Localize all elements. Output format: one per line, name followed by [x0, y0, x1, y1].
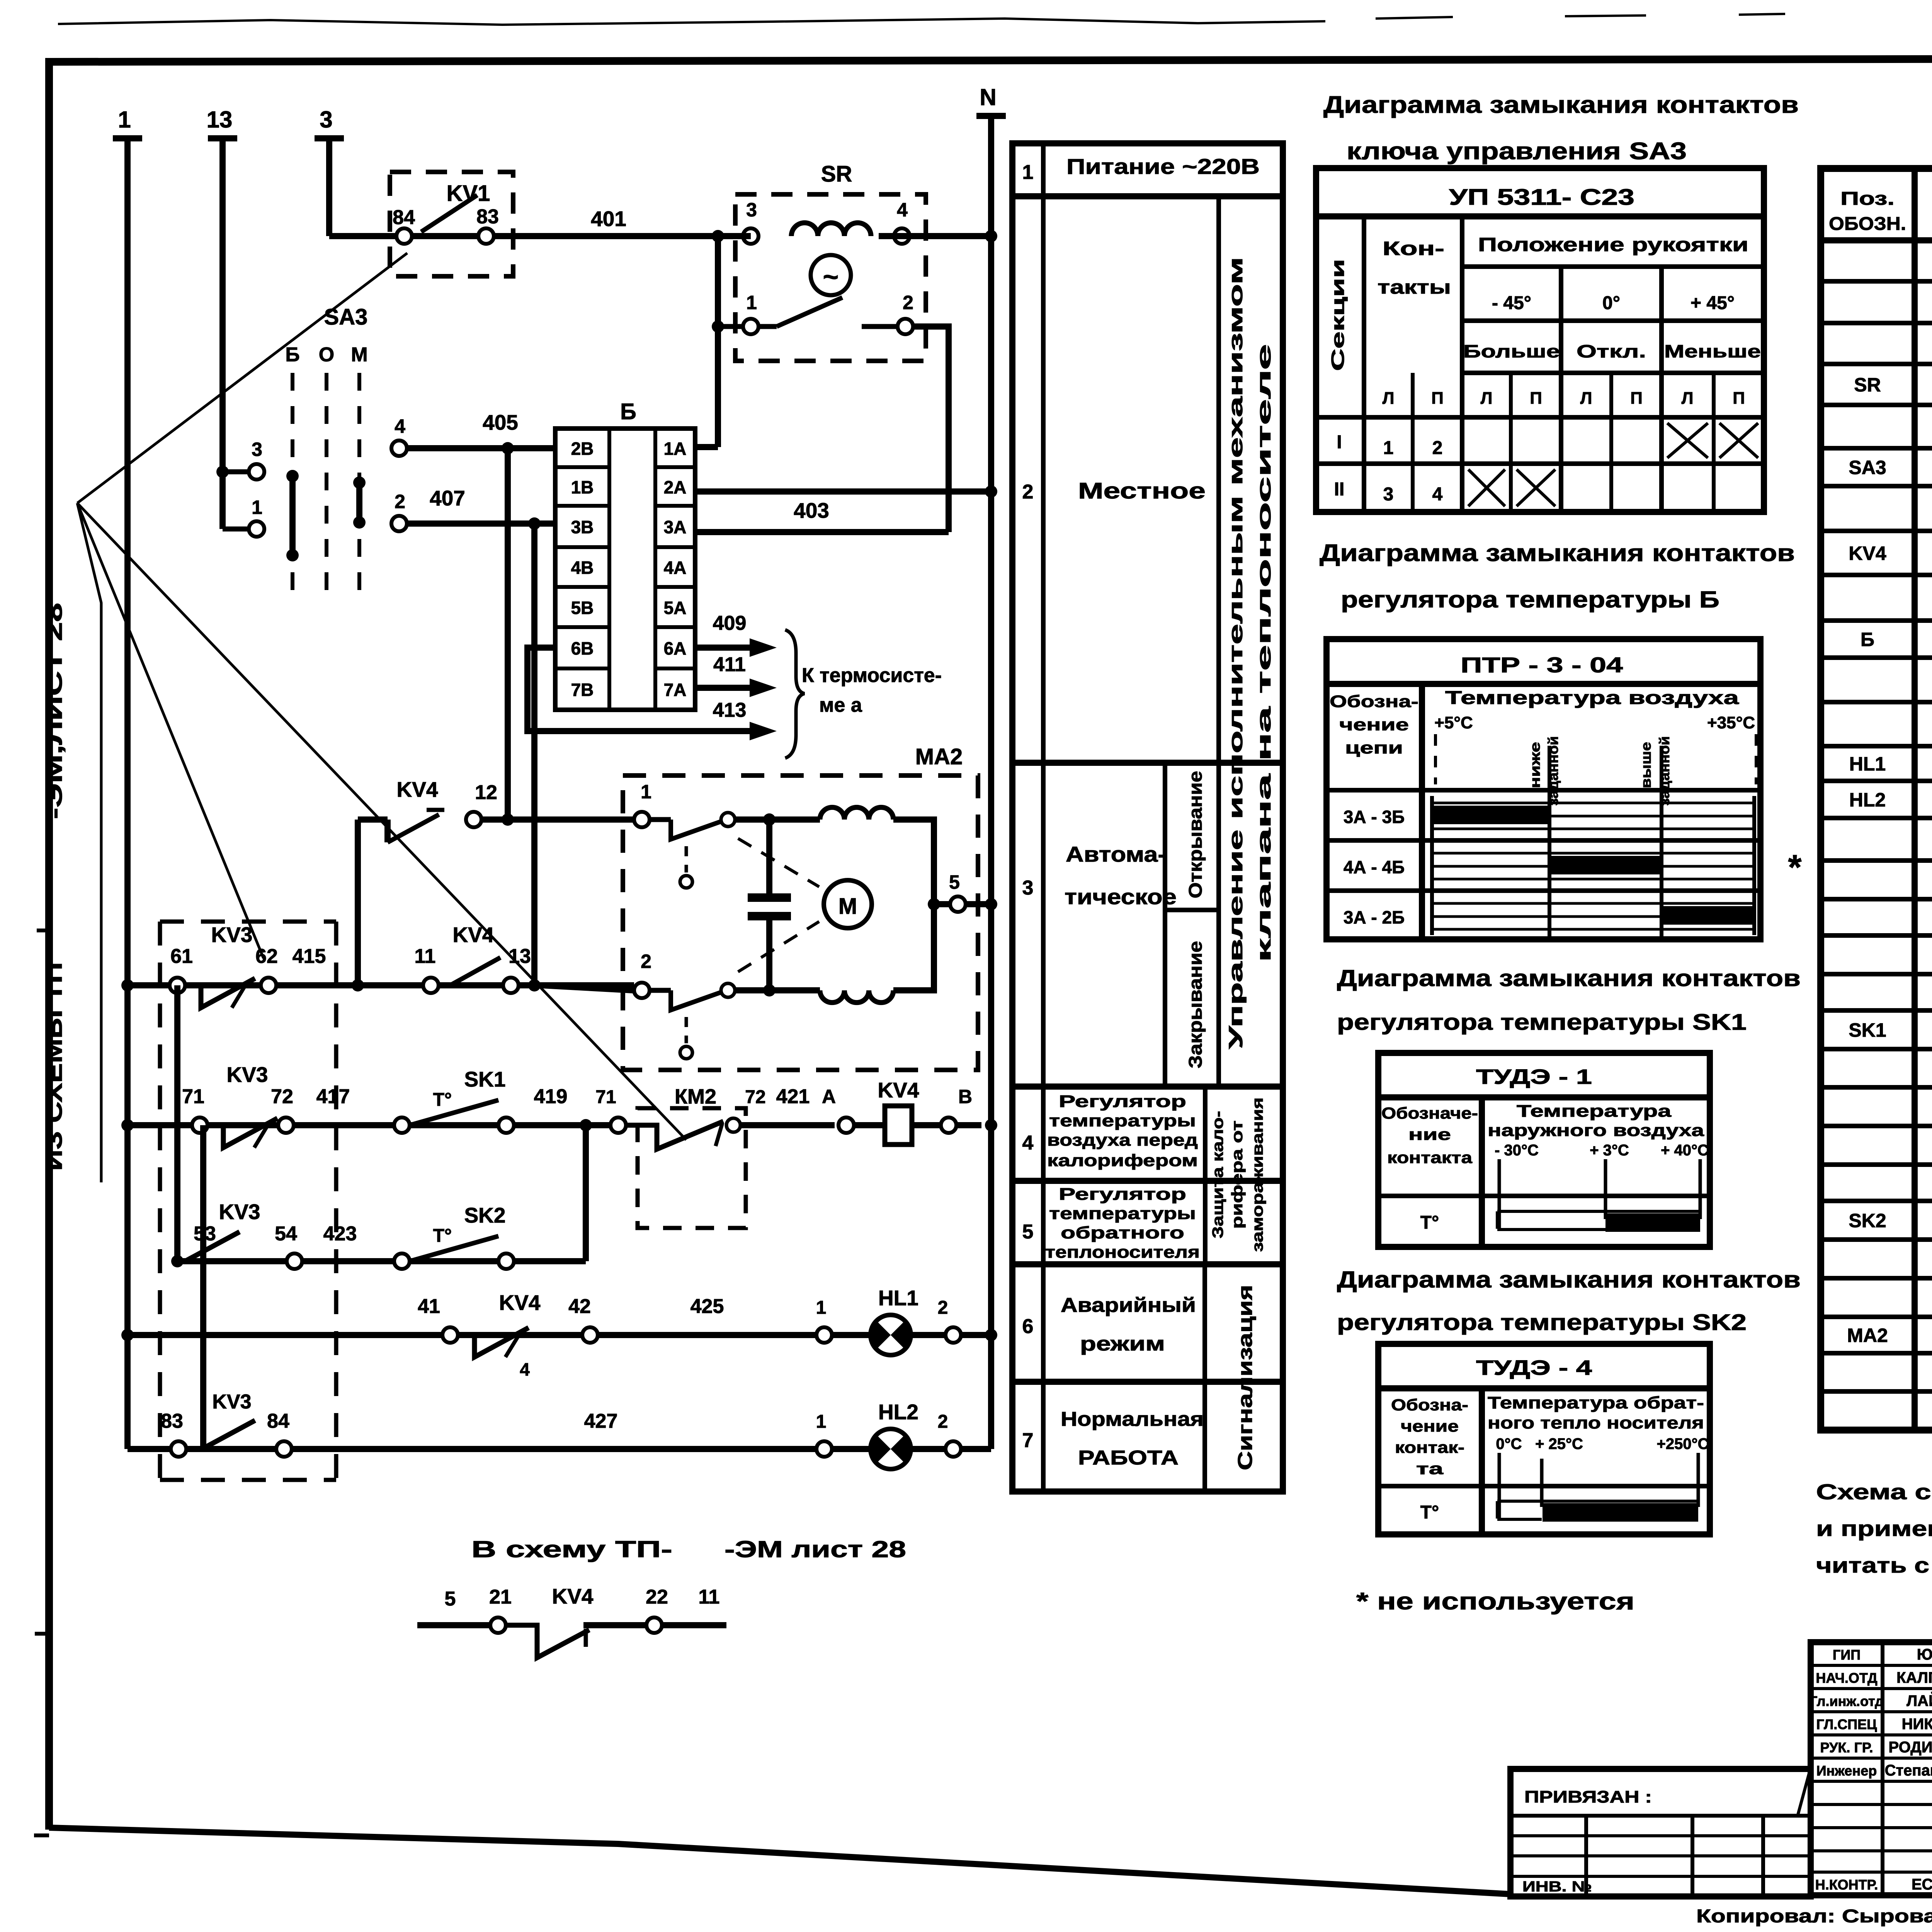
svg-text:теплоносителя: теплоносителя: [1045, 1243, 1200, 1262]
svg-text:417: 417: [316, 1085, 350, 1108]
contact designation column: [1479, 1097, 1485, 1247]
svg-text:контакта: контакта: [1387, 1148, 1473, 1167]
wire 403 from 3A: [695, 529, 949, 535]
svg-text:ме а: ме а: [819, 694, 862, 716]
svg-text:воздуха перед: воздуха перед: [1047, 1131, 1198, 1150]
svg-text:+5°С: +5°С: [1434, 713, 1473, 732]
svg-text:Гл.инж.отд: Гл.инж.отд: [1810, 1693, 1884, 1709]
svg-text:Меньше: Меньше: [1664, 341, 1761, 361]
svg-text:М: М: [351, 344, 367, 366]
svg-text:Диаграмма замыкания контакто: Диаграмма замыкания контактов: [1320, 540, 1795, 566]
svg-text:3В: 3В: [571, 517, 594, 537]
svg-text:3А - 3Б: 3А - 3Б: [1344, 807, 1405, 827]
function table row lines: [1012, 193, 1283, 199]
riser 61 to 53: [174, 985, 180, 1261]
function table number column: [1041, 143, 1046, 1492]
svg-text:KV3: KV3: [211, 923, 253, 947]
wire rung 425: [128, 1332, 991, 1338]
svg-text:SK1: SK1: [1849, 1019, 1886, 1041]
svg-text:11: 11: [699, 1586, 720, 1608]
svg-text:13: 13: [207, 107, 233, 133]
svg-text:контак-: контак-: [1395, 1438, 1464, 1456]
svg-text:407: 407: [430, 486, 465, 510]
SK1 chart: [1497, 1210, 1700, 1213]
svg-text:П: П: [1431, 389, 1444, 408]
svg-text:+ 3°С: + 3°С: [1590, 1142, 1629, 1159]
svg-text:Температура: Температура: [1517, 1102, 1672, 1121]
frame centimeter tick marks: [35, 1632, 49, 1636]
actuator MA2 box: [623, 776, 978, 1070]
svg-text:419: 419: [534, 1085, 568, 1108]
row T contact SK2: [1378, 1484, 1710, 1488]
svg-text:2: 2: [938, 1298, 948, 1318]
svg-text:0°С: 0°С: [1496, 1435, 1522, 1452]
MA2 upper limit contact: [650, 817, 671, 822]
linkage line to KV3: [77, 503, 264, 958]
riser from rung 415 to KV4 contact: [355, 820, 361, 985]
table PTR-3-04 frame: [1327, 639, 1760, 939]
bus line 3: [326, 138, 332, 236]
svg-text:Н.КОНТР.: Н.КОНТР.: [1815, 1877, 1878, 1893]
svg-text:409: 409: [713, 612, 747, 634]
function table frame: [1012, 143, 1283, 1492]
svg-text:Кон-: Кон-: [1383, 238, 1444, 259]
svg-text:ТУДЭ - 1: ТУДЭ - 1: [1476, 1065, 1592, 1088]
svg-text:1В: 1В: [571, 477, 594, 497]
svg-text:4В: 4В: [571, 558, 594, 578]
svg-text:KV3: KV3: [212, 1391, 251, 1413]
svg-text:Б: Б: [1861, 629, 1874, 650]
svg-text:6В: 6В: [571, 638, 594, 658]
svg-text:SA3: SA3: [1849, 457, 1886, 478]
svg-text:KV4: KV4: [453, 923, 494, 947]
svg-text:2А: 2А: [664, 477, 687, 497]
svg-text:SK2: SK2: [1849, 1210, 1886, 1231]
svg-text:Сигнализация: Сигнализация: [1234, 1285, 1257, 1470]
svg-text:SR: SR: [821, 162, 852, 187]
svg-text:Температура воздуха: Температура воздуха: [1445, 688, 1739, 708]
svg-text:ние: ние: [1408, 1125, 1451, 1143]
SA3 position line M: [357, 373, 361, 603]
row 4A-4B: [1327, 838, 1760, 843]
svg-text:4: 4: [395, 415, 405, 437]
wire 411 from 7A: [695, 685, 765, 691]
svg-text:О: О: [319, 344, 334, 366]
svg-text:5: 5: [445, 1588, 456, 1610]
svg-text:ИЗ СХЕМЫ ТП: ИЗ СХЕМЫ ТП: [42, 962, 67, 1171]
svg-text:II: II: [1334, 479, 1345, 500]
svg-text:413: 413: [713, 699, 747, 721]
MA2 lower limit contact: [650, 988, 671, 993]
svg-text:М: М: [838, 894, 857, 919]
relay contact KV1: [390, 172, 513, 276]
svg-text:ного тепло носителя: ного тепло носителя: [1488, 1413, 1704, 1432]
svg-text:KV4: KV4: [552, 1584, 594, 1608]
svg-text:3А - 2Б: 3А - 2Б: [1344, 907, 1405, 927]
svg-text:84: 84: [393, 206, 415, 229]
wire rung 423: [177, 1258, 586, 1264]
svg-text:SK2: SK2: [464, 1203, 506, 1227]
drawing frame border: [49, 1828, 1510, 1894]
svg-text:12: 12: [475, 781, 497, 804]
bus line 1: [124, 138, 131, 1449]
svg-text:1: 1: [118, 107, 131, 133]
MA2 mechanical link dashes: [738, 838, 819, 887]
svg-text:2: 2: [1432, 438, 1443, 458]
L P subheader row: [1362, 373, 1366, 512]
svg-text:ГИП: ГИП: [1833, 1647, 1861, 1663]
row 3A-2B: [1327, 888, 1760, 893]
svg-text:6А: 6А: [664, 638, 687, 658]
svg-text:обратного: обратного: [1061, 1223, 1184, 1242]
svg-text:регулятора температуры SK2: регулятора температуры SK2: [1337, 1310, 1747, 1335]
svg-text:5А: 5А: [664, 598, 687, 618]
svg-text:ИНВ. №: ИНВ. №: [1522, 1879, 1592, 1895]
svg-text:та: та: [1416, 1459, 1444, 1478]
svg-text:427: 427: [584, 1410, 618, 1432]
svg-text:41: 41: [418, 1295, 440, 1318]
svg-text:Т°: Т°: [1420, 1502, 1439, 1523]
column heater protection (rotated): [1203, 1087, 1207, 1264]
svg-text:HL1: HL1: [878, 1286, 918, 1310]
wire from SR pin 2 to terminal 3A (wire 403 riser): [913, 327, 949, 532]
svg-text:3: 3: [1022, 877, 1034, 899]
svg-text:РОДИОНОВА: РОДИОНОВА: [1889, 1739, 1932, 1756]
svg-text:N: N: [980, 84, 996, 110]
row T contact SK1: [1378, 1194, 1710, 1198]
svg-text:6: 6: [1022, 1315, 1034, 1338]
row 3A-3B: [1327, 788, 1760, 793]
svg-text:КМ2: КМ2: [675, 1085, 716, 1108]
svg-text:Аварийный: Аварийный: [1061, 1294, 1196, 1316]
riser 419 to SK2: [583, 1125, 589, 1261]
svg-text:1: 1: [746, 292, 757, 313]
svg-text:72: 72: [745, 1087, 765, 1107]
svg-text:ЛАЙКИН: ЛАЙКИН: [1906, 1692, 1932, 1709]
svg-text:71: 71: [182, 1085, 204, 1108]
bus line 13: [219, 138, 226, 529]
parts table row lines: [1821, 279, 1932, 284]
svg-text:ключа управления SA3: ключа управления SA3: [1347, 138, 1687, 165]
svg-text:HL1: HL1: [1849, 753, 1886, 775]
svg-text:ГЛ.СПЕЦ: ГЛ.СПЕЦ: [1816, 1716, 1878, 1732]
svg-text:405: 405: [483, 410, 518, 434]
svg-text:42: 42: [568, 1295, 591, 1318]
svg-text:4: 4: [1022, 1132, 1034, 1154]
contact designation column 2: [1479, 1388, 1485, 1534]
svg-text:7В: 7В: [571, 680, 594, 700]
svg-text:2: 2: [938, 1412, 948, 1432]
svg-text:4: 4: [1432, 484, 1443, 505]
SA3 position line O: [325, 373, 328, 603]
svg-text:Диаграмма замыкания контакто: Диаграмма замыкания контактов: [1337, 1267, 1801, 1293]
svg-text:В: В: [958, 1086, 972, 1107]
torn paper top edge: [58, 19, 1325, 25]
svg-text:тическое: тическое: [1065, 884, 1177, 909]
svg-text:22: 22: [646, 1586, 668, 1608]
closure bar 3A-3B: [1434, 806, 1549, 824]
table UP5311-S23 frame: [1316, 168, 1764, 512]
svg-text:Местное: Местное: [1078, 478, 1206, 503]
closure bar SK2: [1543, 1503, 1698, 1522]
wire rung 417: [128, 1122, 611, 1128]
relay KV3 enclosure box: [158, 922, 162, 1480]
svg-text:KV4: KV4: [1849, 543, 1886, 564]
svg-text:УП 5311- С23: УП 5311- С23: [1449, 185, 1634, 210]
MA2 capacitor branch: [735, 816, 820, 823]
SK2 chart: [1497, 1500, 1698, 1503]
svg-text:401: 401: [591, 207, 626, 231]
table TUDE-4 frame: [1378, 1344, 1710, 1534]
svg-text:5: 5: [949, 871, 960, 893]
svg-text:+250°С: +250°С: [1657, 1435, 1709, 1452]
svg-text:Т°: Т°: [1420, 1213, 1439, 1233]
svg-text:такты: такты: [1378, 276, 1451, 298]
spare relay contact KV4 (5/21-22/11): [417, 1622, 490, 1628]
svg-text:Диаграмма замыкания контакто: Диаграмма замыкания контактов: [1323, 92, 1799, 118]
svg-text:HL2: HL2: [1849, 789, 1886, 811]
svg-text:клапана на теплонос: клапана на теплоносителе: [1253, 344, 1275, 962]
wire rung 427: [128, 1446, 991, 1452]
svg-text:Инженер: Инженер: [1816, 1763, 1877, 1779]
closure bar 3A-2B: [1662, 906, 1754, 925]
svg-text:SK1: SK1: [464, 1067, 506, 1091]
svg-text:Защита кало-: Защита кало-: [1209, 1111, 1226, 1238]
wire rung 1 from bus 3 to SR: [329, 233, 751, 239]
svg-text:HL2: HL2: [878, 1400, 918, 1424]
svg-text:5В: 5В: [571, 598, 594, 618]
svg-text:0°: 0°: [1602, 293, 1620, 313]
svg-text:Регулятор: Регулятор: [1059, 1185, 1186, 1204]
svg-text:НАЧ.ОТД: НАЧ.ОТД: [1816, 1670, 1877, 1686]
parts list table frame: [1821, 168, 1932, 1430]
svg-text:5: 5: [1022, 1221, 1034, 1243]
svg-text:ТУДЭ - 4: ТУДЭ - 4: [1476, 1356, 1592, 1379]
svg-text:чение: чение: [1401, 1417, 1459, 1435]
temperature switch SK1: [394, 1117, 410, 1133]
svg-text:- 45°: - 45°: [1492, 293, 1531, 313]
svg-text:ниже: ниже: [1527, 742, 1543, 788]
MA2 upper winding: [820, 807, 893, 820]
svg-text:К термосисте-: К термосисте-: [802, 664, 942, 687]
svg-text:температуры: температуры: [1049, 1111, 1196, 1130]
svg-text:наружного воздуха: наружного воздуха: [1488, 1121, 1704, 1140]
wire rung 415: [128, 982, 634, 988]
svg-text:2: 2: [641, 951, 651, 972]
svg-text:Диаграмма замыкания контакто: Диаграмма замыкания контактов: [1337, 965, 1801, 991]
svg-text:2: 2: [903, 292, 913, 313]
svg-text:1: 1: [1022, 161, 1034, 184]
opening-closing subcolumn: [1163, 763, 1167, 1087]
svg-text:П: П: [1530, 389, 1542, 408]
jumper 6B and wire 413: [527, 648, 765, 731]
linkage line to KM2: [77, 503, 686, 1140]
svg-text:KV3: KV3: [219, 1200, 260, 1224]
svg-text:421: 421: [776, 1085, 810, 1108]
svg-text:рифера от: рифера от: [1229, 1121, 1246, 1229]
svg-text:-ЭМ,ЛИСТ 28: -ЭМ,ЛИСТ 28: [42, 603, 67, 819]
temperature switch SK2: [394, 1253, 410, 1269]
svg-text:регулятора температуры SK1: регулятора температуры SK1: [1337, 1010, 1747, 1035]
svg-text:62: 62: [255, 945, 278, 968]
svg-text:+ 40°С: + 40°С: [1661, 1142, 1709, 1159]
table TUDE-1 frame: [1378, 1053, 1710, 1247]
svg-text:+35°С: +35°С: [1707, 713, 1755, 732]
svg-text:выше: выше: [1638, 742, 1654, 788]
svg-text:411: 411: [713, 653, 746, 676]
svg-text:11: 11: [415, 945, 436, 968]
svg-text:21: 21: [489, 1586, 512, 1608]
contactor contact KM2: [638, 1108, 746, 1228]
SA3 position line B: [291, 373, 294, 603]
svg-text:Л: Л: [1481, 389, 1493, 408]
MA2 lower winding: [820, 990, 893, 1003]
svg-text:7А: 7А: [664, 680, 687, 700]
svg-text:84: 84: [267, 1410, 289, 1432]
svg-text:2: 2: [1022, 481, 1034, 503]
svg-text:Нормальная: Нормальная: [1061, 1408, 1204, 1430]
bus line N: [988, 116, 994, 1449]
svg-text:I: I: [1337, 432, 1342, 452]
svg-text:*: *: [1788, 848, 1801, 887]
contacts column: [1460, 216, 1464, 512]
svg-text:температуры: температуры: [1049, 1204, 1196, 1223]
svg-text:П: П: [1630, 389, 1643, 408]
svg-text:Положение рукоятки: Положение рукоятки: [1478, 234, 1748, 255]
svg-text:режим: режим: [1080, 1333, 1165, 1355]
svg-text:2: 2: [395, 491, 405, 512]
svg-text:РУК. ГР.: РУК. ГР.: [1820, 1740, 1873, 1755]
svg-text:КАЛГАНОВ: КАЛГАНОВ: [1896, 1669, 1932, 1686]
svg-text:7: 7: [1022, 1429, 1034, 1452]
svg-text:1: 1: [816, 1412, 827, 1432]
svg-text:3: 3: [746, 199, 757, 221]
svg-text:72: 72: [271, 1085, 293, 1108]
svg-text:Л: Л: [1383, 389, 1395, 408]
svg-text:Б: Б: [285, 344, 299, 366]
svg-text:71: 71: [595, 1087, 616, 1107]
svg-text:ОБОЗН.: ОБОЗН.: [1829, 214, 1906, 234]
svg-text:Обозна-: Обозна-: [1391, 1396, 1468, 1414]
svg-text:П: П: [1733, 389, 1745, 408]
svg-text:замораживания: замораживания: [1249, 1097, 1266, 1252]
svg-text:SR: SR: [1854, 374, 1881, 396]
svg-text:1: 1: [816, 1298, 827, 1318]
svg-text:читать с индексами, соответств: читать с индексами, соответствующими ном…: [1816, 1553, 1932, 1577]
svg-text:Юрин: Юрин: [1917, 1646, 1932, 1663]
stepper interrupter SR: [735, 194, 926, 361]
svg-text:Откл.: Откл.: [1577, 341, 1646, 361]
chart grid lines: [1432, 802, 1754, 804]
svg-text:KV3: KV3: [227, 1063, 268, 1087]
svg-text:3: 3: [252, 439, 262, 460]
svg-text:калорифером: калорифером: [1047, 1151, 1198, 1170]
svg-text:2В: 2В: [571, 439, 594, 459]
svg-text:4: 4: [520, 1359, 530, 1379]
svg-text:Обозначе-: Обозначе-: [1381, 1104, 1478, 1122]
svg-text:регулятора температуры Б: регулятора температуры Б: [1341, 587, 1719, 612]
svg-text:Обозна-: Обозна-: [1330, 692, 1418, 711]
svg-text:Закрывание: Закрывание: [1185, 941, 1206, 1068]
svg-text:1А: 1А: [664, 439, 687, 459]
svg-text:Схема составлена для прито: Схема составлена для приточной системы П…: [1816, 1480, 1932, 1504]
sections column: [1362, 216, 1366, 512]
title block signatures table frame: [1811, 1642, 1932, 1895]
svg-text:В схему ТП-: В схему ТП-: [471, 1536, 672, 1562]
MA2 output 5 to bus N: [934, 901, 991, 907]
junction N and rung 1: [985, 230, 997, 242]
svg-text:* не используется: * не используется: [1356, 1588, 1634, 1615]
svg-text:83: 83: [476, 206, 499, 228]
svg-text:Питание ~220В: Питание ~220В: [1066, 154, 1260, 179]
margin reference rule line: [77, 503, 101, 1182]
svg-text:KV4: KV4: [397, 777, 438, 801]
svg-text:3: 3: [1383, 484, 1394, 505]
svg-text:Степановский: Степановский: [1885, 1762, 1932, 1779]
svg-text:+ 25°С: + 25°С: [1535, 1435, 1583, 1452]
svg-text:Т°: Т°: [433, 1226, 452, 1246]
svg-text:1: 1: [252, 497, 262, 518]
svg-text:61: 61: [170, 945, 193, 968]
svg-text:заданной: заданной: [1656, 736, 1672, 806]
svg-text:Б: Б: [620, 399, 636, 424]
riser to terminal 1A: [718, 233, 751, 239]
svg-text:ЕСИНА: ЕСИНА: [1912, 1876, 1932, 1893]
svg-text:чение: чение: [1339, 715, 1409, 734]
svg-text:83: 83: [161, 1410, 183, 1432]
svg-text:Температура обрат-: Температура обрат-: [1488, 1393, 1704, 1412]
svg-text:415: 415: [293, 945, 326, 968]
svg-text:Поз.: Поз.: [1840, 189, 1895, 209]
brace to thermosystem: [785, 630, 804, 758]
svg-text:Открывание: Открывание: [1185, 771, 1206, 898]
MA2 motor M: [824, 880, 872, 928]
svg-text:МА2: МА2: [915, 744, 963, 769]
svg-text:4: 4: [897, 199, 908, 221]
signature slash mark: [1798, 1762, 1812, 1816]
svg-text:Т°: Т°: [433, 1090, 452, 1110]
column signalling (rotated): [1202, 1264, 1207, 1492]
svg-text:Регулятор: Регулятор: [1059, 1092, 1186, 1111]
svg-text:1: 1: [1383, 438, 1394, 458]
svg-text:1: 1: [641, 781, 651, 803]
svg-text:Л: Л: [1682, 389, 1694, 408]
privyazan reference box: [1510, 1769, 1811, 1896]
svg-text:3А: 3А: [664, 517, 687, 537]
svg-text:403: 403: [794, 498, 829, 522]
riser from wire 405 to KV4 rung: [505, 448, 511, 820]
svg-text:РАБОТА: РАБОТА: [1078, 1447, 1179, 1469]
parts table column lines: [1912, 168, 1918, 1430]
svg-text:и применима для систем П6,П: и применима для систем П6,П9, П10 (приво…: [1816, 1516, 1932, 1541]
svg-text:13: 13: [509, 945, 531, 968]
svg-text:423: 423: [323, 1223, 357, 1245]
svg-text:- 30°С: - 30°С: [1495, 1142, 1539, 1159]
svg-text:Управление исполнительным: Управление исполнительным механизмом: [1225, 257, 1247, 1049]
svg-text:ПТР - 3 - 04: ПТР - 3 - 04: [1461, 653, 1623, 677]
closure bar SK1: [1605, 1213, 1700, 1232]
svg-text:SA3: SA3: [324, 304, 368, 330]
svg-text:А: А: [822, 1086, 836, 1107]
svg-text:ПРИВЯЗАН :: ПРИВЯЗАН :: [1524, 1787, 1652, 1806]
svg-text:3: 3: [320, 107, 332, 133]
svg-text:KV4: KV4: [878, 1078, 919, 1102]
circuit designation column: [1419, 684, 1425, 939]
wire 409 from 6A: [695, 645, 765, 651]
svg-text:Л: Л: [1580, 389, 1592, 408]
svg-text:цепи: цепи: [1345, 738, 1403, 757]
svg-text:Больше: Больше: [1463, 341, 1560, 361]
